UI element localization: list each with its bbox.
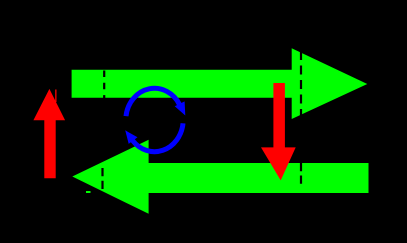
dashed line left lower: [101, 168, 103, 190]
red arrow up (left): [33, 89, 65, 178]
dashed line right upper: [300, 51, 302, 119]
green dash fragment: [86, 191, 91, 193]
blue rotation arc top: [126, 88, 180, 116]
blue rotation arc bottom: [133, 123, 184, 151]
red arrow down (right): [261, 83, 296, 180]
dashed line right lower: [300, 163, 302, 186]
red tick line: [55, 90, 56, 103]
green arrow right (top): [72, 48, 368, 119]
dashed line left upper: [103, 71, 105, 99]
blue arrowhead left: [125, 130, 137, 144]
blue arrowhead right: [175, 101, 186, 115]
green arrow left (bottom): [72, 140, 368, 214]
